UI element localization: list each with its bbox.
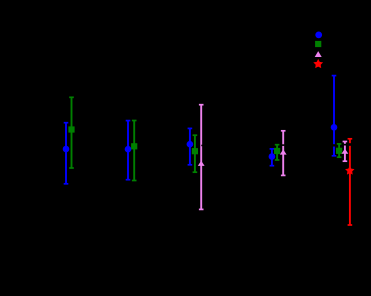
- errorbar series: green squares: [72, 97, 340, 180]
- plum triangle markers: [198, 149, 348, 166]
- errorbar series: plum triangles (bars): [201, 105, 345, 210]
- green square markers: [68, 126, 342, 154]
- invisible black overlay line creating gaps in blue/plum/red bars: [201, 143, 351, 146]
- errorbar series: red star (bar): [349, 139, 351, 225]
- red star marker: [345, 166, 354, 175]
- errorbar series: blue circles: [66, 76, 334, 184]
- legend markers: [315, 32, 322, 39]
- blue circle markers: [63, 124, 338, 160]
